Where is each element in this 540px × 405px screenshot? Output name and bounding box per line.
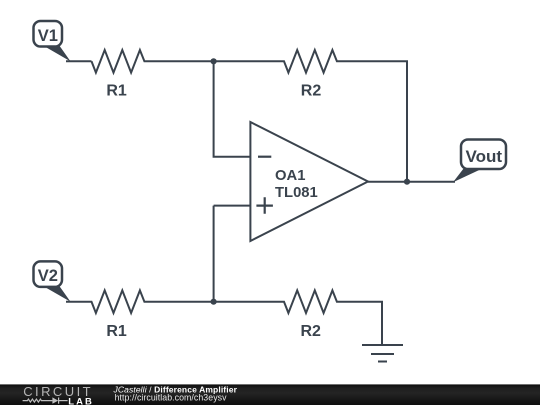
- svg-text:R2: R2: [301, 83, 322, 100]
- svg-text:R1: R1: [106, 83, 127, 100]
- svg-text:OA1: OA1: [275, 168, 305, 184]
- svg-text:R2: R2: [300, 323, 321, 340]
- svg-text:R1: R1: [106, 323, 127, 340]
- svg-text:V2: V2: [38, 267, 58, 285]
- svg-text:http://circuitlab.com/ch3eysv: http://circuitlab.com/ch3eysv: [115, 392, 227, 402]
- svg-text:TL081: TL081: [275, 185, 318, 201]
- svg-text:V1: V1: [38, 27, 58, 45]
- svg-text:LAB: LAB: [68, 396, 94, 405]
- svg-text:Vout: Vout: [466, 147, 503, 166]
